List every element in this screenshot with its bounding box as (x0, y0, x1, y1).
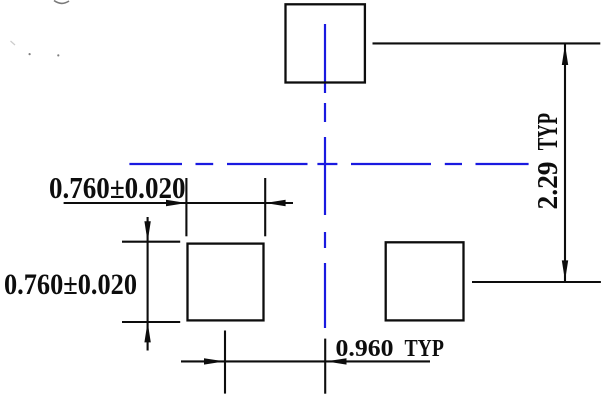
svg-text:0.760±0.020: 0.760±0.020 (4, 268, 137, 301)
svg-text:TYP: TYP (405, 335, 445, 362)
svg-text:0.960: 0.960 (336, 335, 394, 362)
svg-text:0.760±0.020: 0.760±0.020 (49, 170, 186, 205)
svg-text:TYP: TYP (533, 113, 564, 150)
svg-text:2.29: 2.29 (533, 162, 564, 210)
